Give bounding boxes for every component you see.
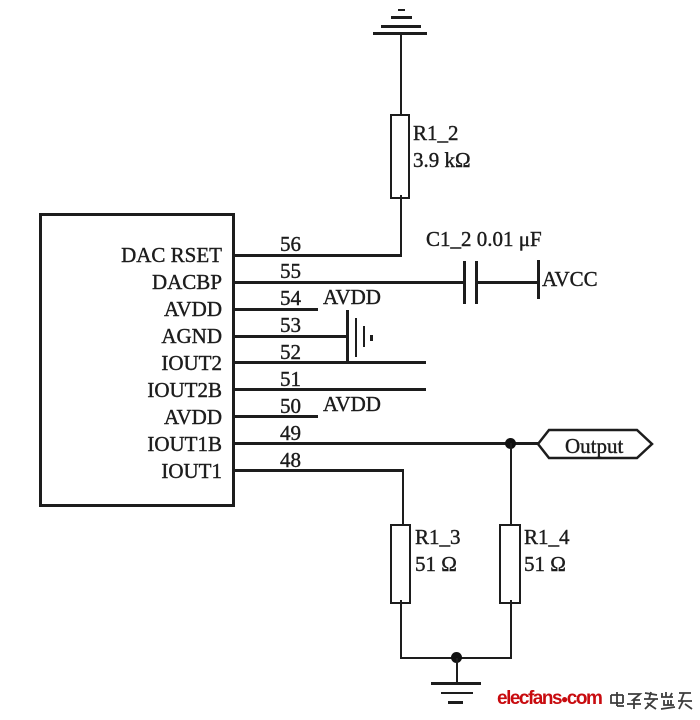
resistor R1_4 bbox=[499, 524, 521, 604]
wire R1_4 down bbox=[510, 600, 512, 659]
pin number 53 bbox=[280, 312, 301, 339]
wire bottom joining bbox=[400, 657, 512, 660]
pin number 54 bbox=[280, 285, 301, 312]
pin IOUT2B label bbox=[0, 377, 222, 404]
pin AVDD label bbox=[0, 296, 222, 323]
pin number 50 bbox=[280, 393, 301, 420]
resistor R1_3 bbox=[390, 524, 411, 604]
resistor R1_2 bbox=[390, 114, 410, 199]
wire pin 48 down to R1_3 bbox=[402, 469, 404, 524]
wire pin 50 bbox=[232, 415, 318, 418]
wire C1_2 to AVCC bbox=[478, 281, 538, 284]
ground (top earth ground) bbox=[373, 32, 427, 35]
elecfans.com logo bbox=[497, 689, 601, 709]
capacitor C1_2 bbox=[463, 261, 466, 304]
wire R1_2 to pin 56 bbox=[400, 195, 402, 256]
pin IOUT1 label bbox=[0, 458, 222, 485]
pin number 56 bbox=[280, 231, 301, 258]
wire pin 56 bbox=[232, 254, 402, 257]
logo chinese 电子发烧友 bbox=[609, 691, 694, 711]
wire pin 52 bbox=[232, 361, 426, 364]
wire pin 55 bbox=[232, 281, 465, 284]
pin number 55 bbox=[280, 258, 301, 285]
pin AVDD label bbox=[0, 404, 222, 431]
wire pin 48 bbox=[232, 469, 404, 472]
ground AGND (rotated earth, pin 53) bbox=[346, 310, 349, 364]
wire junction down to R1_4 bbox=[510, 443, 512, 524]
pin number 48 bbox=[280, 447, 301, 474]
pin DACBP label bbox=[0, 269, 222, 296]
pin number 49 bbox=[280, 420, 301, 447]
wire ground to R1_2 bbox=[400, 33, 402, 116]
wire pin 53 bbox=[232, 335, 348, 338]
pin number 52 bbox=[280, 339, 301, 366]
pin number 51 bbox=[280, 366, 301, 393]
wire pin 51 bbox=[232, 388, 426, 391]
wire pin 54 bbox=[232, 308, 318, 311]
label R1_4 value bbox=[524, 524, 570, 578]
power AVCC terminal bbox=[537, 260, 540, 299]
node junction dot (bottom) bbox=[451, 652, 462, 663]
power AVDD label (pin 54) bbox=[323, 284, 381, 311]
label R1_3 value bbox=[415, 524, 461, 578]
power AVDD label (pin 50) bbox=[323, 391, 381, 418]
wire R1_3 down bbox=[400, 600, 402, 659]
ground (bottom earth) bbox=[456, 658, 458, 683]
op-amp U1 (DAC IC box) bbox=[39, 213, 235, 507]
pin DAC RSET label bbox=[0, 242, 222, 269]
node junction dot (output) bbox=[505, 438, 516, 449]
pin AGND label bbox=[0, 323, 222, 350]
node Output flag bbox=[536, 428, 654, 460]
pin IOUT2 label bbox=[0, 350, 222, 377]
label R1_2 value bbox=[413, 120, 471, 174]
wire pin 49 bbox=[232, 442, 539, 445]
pin IOUT1B label bbox=[0, 431, 222, 458]
label C1_2 value bbox=[426, 226, 542, 253]
